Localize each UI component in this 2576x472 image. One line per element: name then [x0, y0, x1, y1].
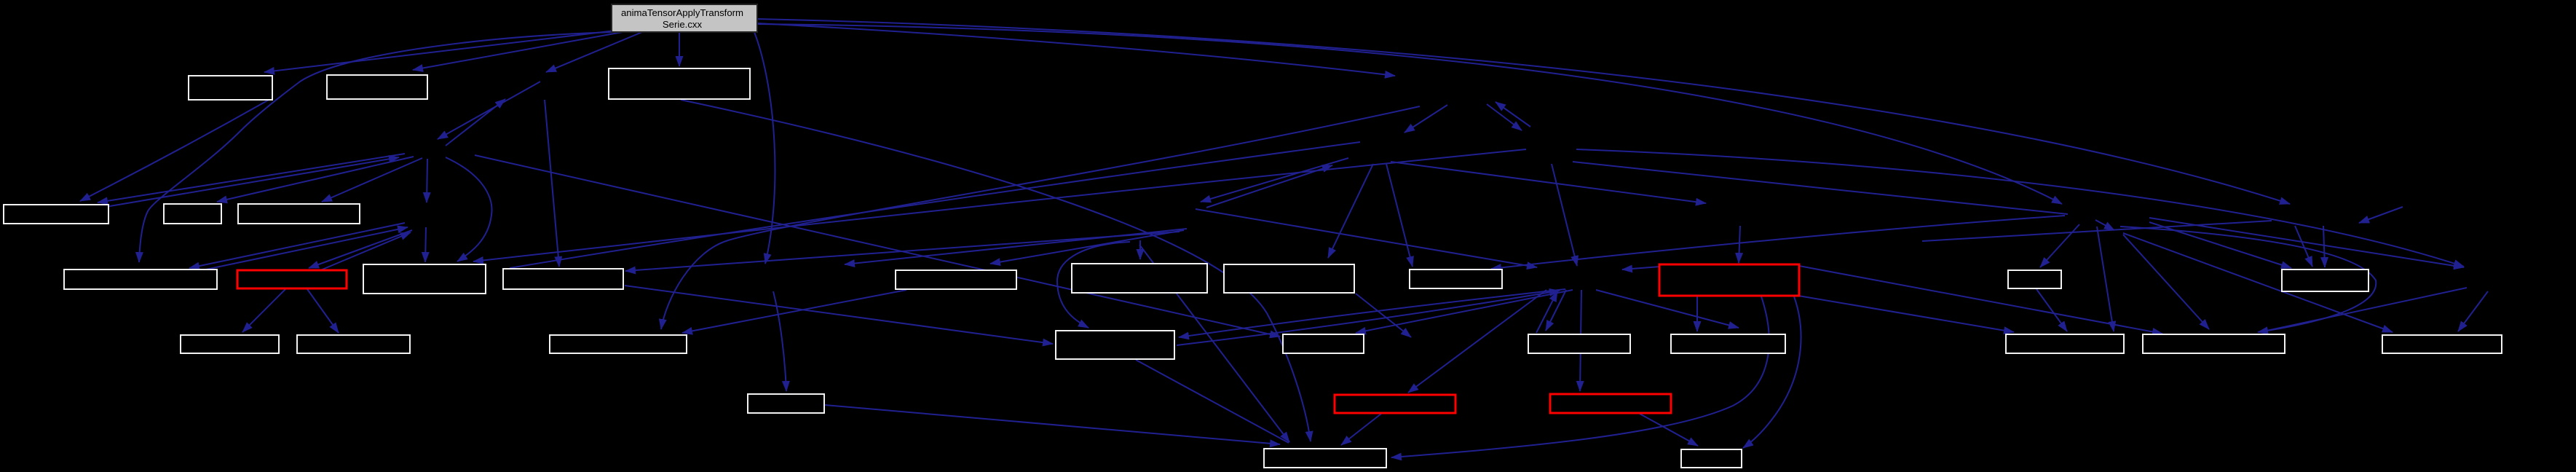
edge hubR-AC [2458, 291, 2488, 331]
edge hub3-P [2040, 224, 2079, 267]
edge hub3-N [1491, 216, 2065, 269]
edge hubW-N [1386, 164, 1413, 267]
edge top-X1 [546, 32, 642, 72]
edge hubM-L [1139, 240, 1141, 259]
box P [2008, 270, 2061, 288]
box AC [2382, 335, 2502, 353]
edge hubV-I [473, 149, 1526, 261]
edge Y1-W [475, 155, 1280, 337]
edge flat-hub3b [1922, 221, 2272, 241]
edge hub2-V [1179, 289, 1565, 337]
edge top-B [413, 32, 623, 70]
edge O-hub2 [1622, 267, 1660, 270]
edge hub3-Q [2149, 222, 2291, 268]
edge W1-I [425, 227, 426, 262]
edge A-D [80, 99, 270, 201]
box AB [2143, 334, 2285, 353]
edge X1-Y1 [438, 82, 540, 139]
edge Z2-B2 [1640, 414, 1698, 446]
box Z2 [1550, 394, 1671, 413]
edge O-B1 [1391, 296, 1769, 457]
edge hubM-hub2 [1196, 209, 1537, 267]
box Q [2282, 270, 2368, 291]
edge hubW-hubM [1201, 158, 1348, 202]
box S [297, 335, 410, 353]
edge hubM-J [625, 232, 1180, 271]
edge hub3b-AC [2123, 233, 2393, 332]
edge hub3-hub3b [2095, 220, 2114, 230]
edge hubZ-hubV [1487, 104, 1522, 130]
edge hub2-W [1356, 290, 1573, 333]
box Z1 [1335, 395, 1455, 413]
edge J-hubW [510, 142, 1360, 268]
edge top-hub3 [757, 24, 2062, 204]
edge G-W1 [195, 227, 408, 272]
edge hubV-hub3a [1573, 162, 2068, 214]
edge O-B2 [1743, 296, 1801, 448]
box H [237, 270, 347, 288]
edge hubU-U [773, 291, 786, 391]
edge hubC2-Qb [2295, 226, 2312, 267]
edge hub3-AA [2097, 227, 2114, 331]
box L [1072, 264, 1207, 293]
edge Y1-X1 [446, 99, 505, 146]
edge top-hubZ [757, 23, 1395, 76]
edge P-AA [2036, 289, 2067, 331]
edge hubW-hubO [1391, 162, 1706, 203]
box Y [1671, 334, 1785, 353]
edge hub2-Z1 [1408, 290, 1546, 393]
edge hub3-hubR [2149, 218, 2464, 267]
box I [363, 264, 486, 294]
edge Y1-W1 [427, 159, 427, 202]
box B2 [1681, 449, 1742, 468]
edge K-T [682, 290, 906, 333]
edge C-B1 [681, 100, 1311, 441]
edge W1-G [189, 223, 405, 268]
edge hub2-Z2 [1580, 290, 1581, 391]
node animaTensorApplyTransformSerie.cxx [612, 4, 757, 32]
box T [550, 335, 687, 353]
edge V-B1 [1136, 360, 1289, 443]
edge x-hubC2 [2359, 207, 2403, 223]
edge M-hubB [1356, 294, 1411, 337]
edge hubM-K [990, 230, 1184, 264]
box M [1224, 264, 1354, 293]
edge O-AA [1798, 296, 2014, 332]
edge top-A [264, 31, 615, 72]
edge top-hubU [754, 32, 775, 264]
box K [896, 270, 1016, 289]
edge hub3b-AB [2123, 235, 2209, 329]
edge H-W1 [315, 232, 411, 272]
edge O-Y [1696, 296, 1698, 331]
box B1 [1264, 449, 1386, 468]
edge hub2-X [1546, 290, 1566, 331]
edge hubR-AB [2260, 288, 2467, 332]
edge hubV-hubZ [1496, 102, 1530, 127]
edge Z1-B1 [1341, 414, 1381, 445]
edge hubM-B1 [1139, 245, 1289, 442]
edge hubZ-hubW [1404, 105, 1447, 133]
edge Y1-E [217, 157, 414, 202]
edge hubV-hubR [1576, 149, 2464, 267]
box U [748, 394, 824, 413]
edge hubW-M [1328, 164, 1373, 258]
box V [1056, 331, 1174, 359]
edge hubM-V [1057, 242, 1130, 328]
edge X1-J [545, 100, 559, 267]
box AA [2006, 334, 2124, 353]
box F [238, 204, 360, 224]
edge H-R [242, 289, 285, 332]
edge hubV-hub2 [1552, 164, 1577, 266]
edge J-V [625, 286, 1053, 344]
box W [1283, 334, 1364, 353]
edge hubO-O [1739, 226, 1740, 263]
box B [327, 75, 427, 99]
box X [1528, 334, 1630, 353]
box N [1410, 270, 1502, 288]
box A [189, 76, 272, 100]
edge Y1-I [446, 157, 491, 261]
edge O-AB [1799, 266, 2162, 334]
edge hub2-Y [1596, 290, 1739, 328]
edge H-S [307, 289, 339, 333]
edge hubM-K2 [845, 229, 1187, 264]
edge Y1-F [322, 158, 422, 202]
edge hub3-AB [2120, 227, 2376, 332]
edge X-hub2 [1536, 291, 1557, 333]
edge D-Y1 [106, 157, 399, 207]
box G [64, 270, 217, 289]
box J [503, 269, 623, 289]
edge hubC2-Qc [2323, 226, 2325, 267]
edge V-hub2 [1177, 291, 1560, 345]
edge Y1-D [98, 154, 405, 202]
box O [1659, 264, 1799, 296]
edge hubZ-T [661, 106, 1420, 329]
edge top-hubC2 [757, 19, 2290, 204]
edge W1-H [309, 230, 412, 268]
edge top-C [679, 32, 680, 66]
box C [609, 68, 750, 99]
edge top-G [139, 32, 614, 262]
box E [164, 204, 221, 224]
box R [181, 335, 279, 353]
box D [4, 205, 108, 224]
svg-text:animaTensorApplyTransform: animaTensorApplyTransform [621, 7, 743, 18]
svg-text:Serie.cxx: Serie.cxx [663, 19, 703, 30]
edge hubM-hubW [1206, 165, 1332, 208]
edge U-B1 [825, 405, 1280, 444]
